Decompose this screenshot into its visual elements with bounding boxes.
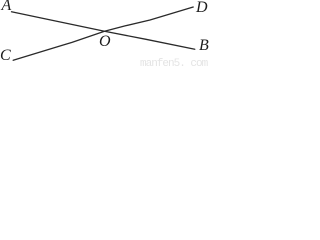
line AB	[12, 12, 195, 49]
node C	[0, 48, 11, 64]
figure canvas	[0, 0, 209, 68]
node B	[199, 38, 209, 54]
watermark	[140, 59, 207, 70]
node D	[196, 0, 208, 16]
node O	[99, 34, 111, 50]
line CD	[13, 7, 193, 60]
node A	[2, 0, 12, 14]
